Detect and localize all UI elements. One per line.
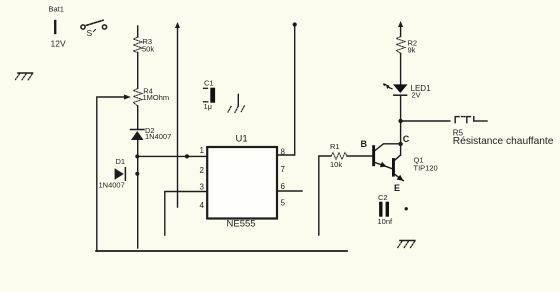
junction dot (top of pin8 rail)	[293, 22, 297, 26]
resistor R1 10k	[331, 153, 347, 160]
svg-text:7: 7	[281, 165, 286, 174]
svg-text:1μ: 1μ	[204, 102, 213, 111]
capacitor C1	[210, 88, 215, 103]
svg-text:S: S	[87, 28, 93, 38]
junction dot on pin1 wire	[185, 154, 189, 158]
svg-text:2V: 2V	[412, 91, 421, 100]
R2 rail with arrow	[400, 25, 402, 37]
svg-text:Résistance chauffante: Résistance chauffante	[453, 136, 554, 147]
capacitor C2	[379, 202, 382, 217]
LED LED1	[393, 84, 408, 93]
svg-text:C: C	[403, 134, 410, 144]
wire R2 to LED	[400, 53, 402, 84]
svg-text:D1: D1	[116, 157, 126, 166]
junction dot (pin1/D2)	[135, 154, 139, 158]
svg-text:C1: C1	[204, 79, 214, 88]
svg-text:1: 1	[200, 146, 205, 155]
ground (near C1)	[237, 94, 239, 106]
pin 1 wire	[137, 155, 207, 157]
stray dot (emitter)	[405, 207, 408, 210]
svg-text:Bat1: Bat1	[49, 5, 64, 14]
battery Bat1	[54, 21, 56, 33]
wire R3 to R4	[137, 53, 139, 89]
svg-text:B: B	[361, 139, 368, 149]
rail with arrow (x=177.5)	[177, 27, 179, 208]
bottom wire	[96, 250, 347, 252]
svg-text:3: 3	[200, 183, 205, 192]
svg-text:50k: 50k	[142, 45, 154, 54]
svg-text:10nf: 10nf	[378, 217, 394, 226]
junction node C	[398, 142, 402, 146]
wiper wire with arrow	[97, 97, 126, 251]
wire node to collector	[400, 121, 402, 155]
svg-text:E: E	[394, 183, 400, 193]
svg-text:C2: C2	[378, 193, 388, 202]
ground (battery)	[16, 73, 33, 80]
R1 branch wire	[319, 156, 331, 235]
junction dot (D1 cathode level)	[135, 172, 139, 176]
svg-text:NE555: NE555	[227, 219, 256, 230]
svg-text:9k: 9k	[408, 45, 416, 54]
diode D2 1N4007	[131, 129, 145, 131]
pin 3 wire	[165, 192, 207, 236]
resistor R3 50k	[133, 37, 142, 53]
svg-text:TIP120: TIP120	[414, 163, 438, 172]
svg-text:1N4007: 1N4007	[99, 181, 125, 190]
svg-text:2: 2	[200, 166, 205, 175]
resistor R5 wire right	[474, 120, 487, 122]
svg-text:10k: 10k	[330, 160, 342, 169]
IC U1 NE555	[207, 147, 277, 219]
svg-text:1N4007: 1N4007	[145, 132, 171, 141]
potentiometer R4 1MOhm	[133, 89, 142, 107]
wire R4 to D2	[137, 106, 139, 130]
svg-text:6: 6	[281, 182, 286, 191]
svg-text:R1: R1	[330, 142, 340, 151]
pin 8 wire	[277, 26, 295, 156]
resistor R2 9k	[396, 37, 405, 54]
junction node R5	[398, 119, 402, 123]
svg-text:4: 4	[200, 201, 205, 210]
wire D2 down to bottom	[137, 140, 139, 248]
switch S1	[81, 20, 107, 29]
svg-text:1MOhm: 1MOhm	[143, 93, 170, 102]
wire LED to R5 node	[400, 95, 402, 121]
ground (emitter area)	[400, 240, 415, 242]
svg-text:5: 5	[281, 199, 286, 208]
svg-text:12V: 12V	[51, 39, 66, 49]
diode D1 1N4007	[115, 168, 124, 179]
wire R1 to base	[347, 155, 372, 157]
pin 6 wire	[277, 190, 302, 192]
svg-text:U1: U1	[236, 134, 248, 145]
resistor R5 wire left	[401, 120, 450, 122]
wire top to R3	[137, 26, 139, 37]
resistor R5 symbol	[455, 117, 474, 123]
transistor Q1 TIP120 (darlington)	[372, 145, 375, 166]
